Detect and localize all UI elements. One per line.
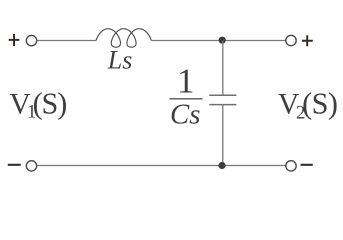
terminal circle bottom-left (26, 161, 36, 171)
wire top-left (input terminal to inductor) (37, 40, 96, 42)
terminal circle bottom-right (286, 161, 296, 171)
wire bottom (return path) (37, 165, 286, 167)
svg-text:(S): (S) (302, 87, 337, 121)
label V2(S) (278, 87, 338, 124)
capacitor C top plate (209, 94, 236, 96)
capacitor C bottom plate (209, 104, 236, 106)
inductor L1 coil (96, 29, 151, 48)
svg-text:1: 1 (177, 62, 195, 101)
terminal circle top-left (26, 35, 36, 45)
node B junction dot (bottom) (218, 162, 225, 169)
label V1(S) (9, 87, 66, 123)
minus sign (bottom-right output polarity) (301, 164, 313, 166)
terminal circle top-right (286, 35, 296, 45)
label 1/Cs fraction bar (170, 98, 203, 100)
plus sign (top-left input polarity) (9, 34, 20, 46)
wire node A to output terminal (223, 40, 286, 42)
svg-text:Cs: Cs (170, 99, 200, 131)
svg-text:Ls: Ls (107, 46, 133, 75)
wire top-right (inductor to node A) (151, 40, 222, 42)
plus sign (top-right output polarity) (302, 35, 313, 46)
wire capacitor top lead (222, 41, 224, 96)
minus sign (bottom-left input polarity) (8, 164, 21, 166)
svg-text:(S): (S) (33, 87, 67, 121)
node A junction dot (top) (219, 37, 226, 44)
wire capacitor bottom lead (222, 105, 224, 166)
